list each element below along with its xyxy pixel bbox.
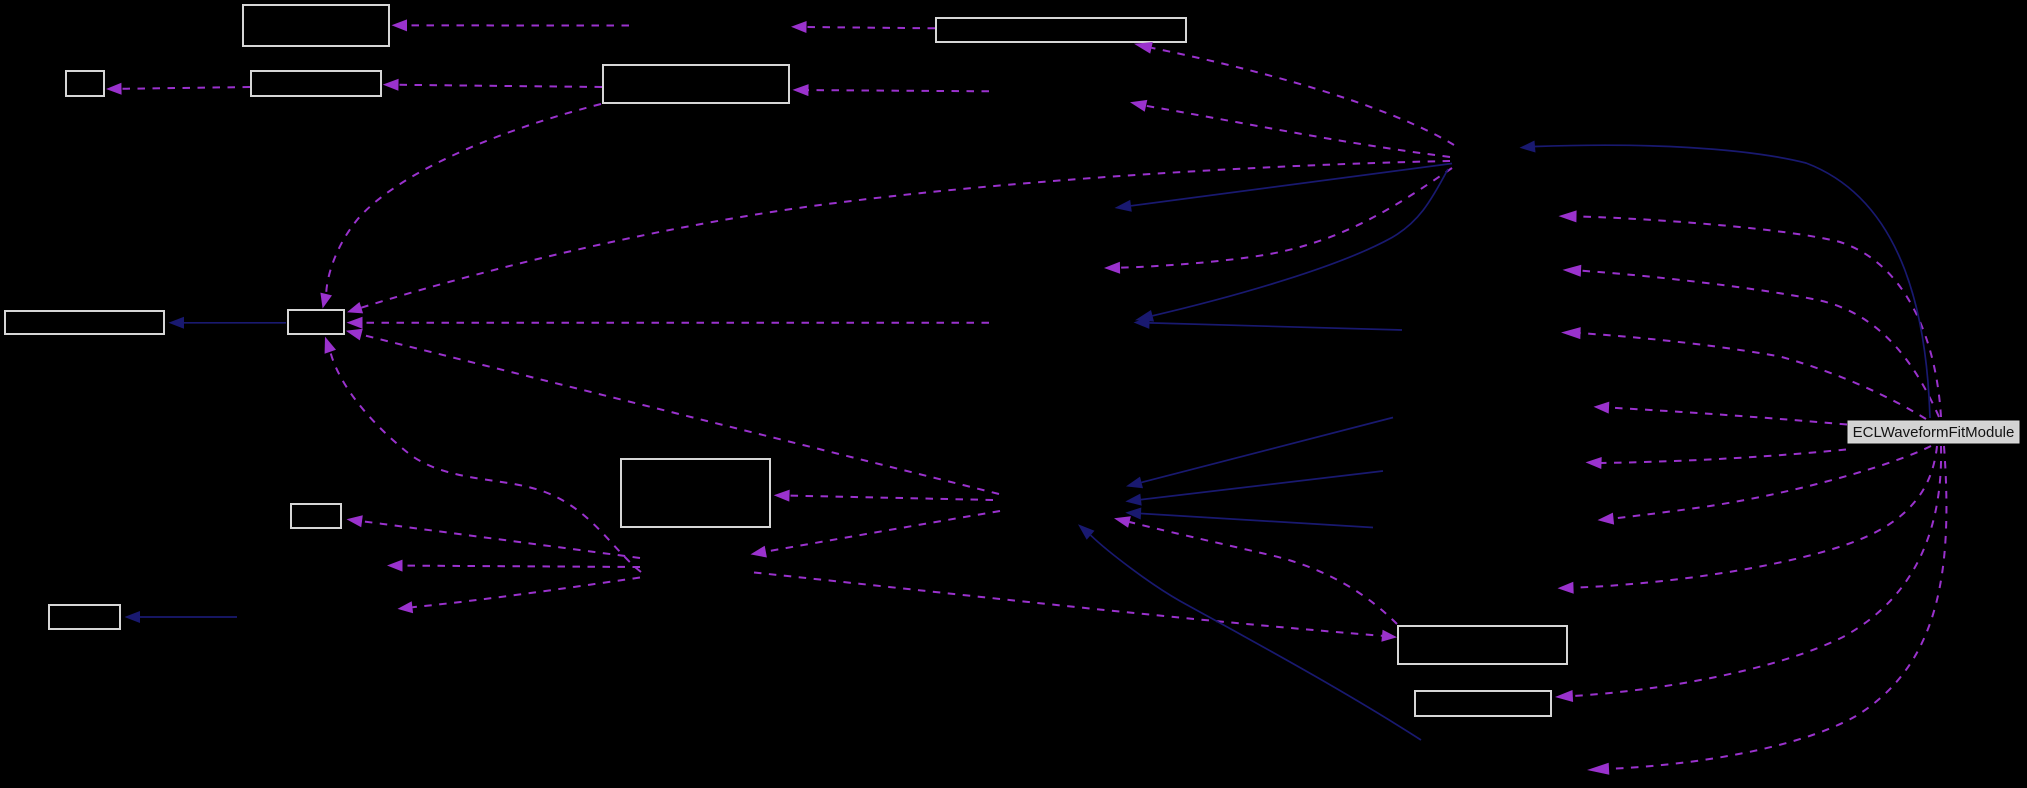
node B7 xyxy=(5,311,164,334)
svg-text:ECLWaveformFitModule: ECLWaveformFitModule xyxy=(1853,424,2015,441)
edge INV13 to INV7 blue xyxy=(1134,317,1403,330)
edge HUB2 to node566 xyxy=(387,560,640,572)
edge B12 to INV3 xyxy=(1114,516,1397,624)
edge INV3 to B8 xyxy=(346,329,999,494)
node B2 xyxy=(66,71,104,96)
edge ECL to B13 xyxy=(1555,446,1941,702)
edge INV5 to INV3 blue xyxy=(1125,471,1383,506)
node B1 xyxy=(243,5,389,46)
edge INV7 to B8 xyxy=(347,317,990,329)
edge ECL arc2 xyxy=(1563,265,1940,417)
edge B5 to INV1 xyxy=(791,21,935,33)
edge INV8 to B11 blue xyxy=(125,611,238,623)
edge INV11 to B4 xyxy=(793,84,990,96)
node B9 xyxy=(621,459,770,527)
edge ECL arc4 xyxy=(1594,402,1848,425)
edge INV3 to HUB2 xyxy=(751,511,1001,558)
edge HUB2 to B10 xyxy=(347,515,641,558)
edge HUB to INV11 xyxy=(1130,100,1450,157)
node B8 xyxy=(288,310,344,334)
edge B3 to B2 xyxy=(106,83,250,95)
edge ECL arc3 xyxy=(1561,327,1926,419)
edge ECL arc7 xyxy=(1558,446,1938,594)
edge INV9 to INV3 blue xyxy=(1125,508,1373,528)
edge ECL to HUB blue arc xyxy=(1520,141,1931,419)
edge ECL arc6 xyxy=(1598,446,1932,525)
edge B4 to B3 xyxy=(383,79,602,91)
edge HUB2 to node609 xyxy=(398,578,641,614)
edge ECL arc1 xyxy=(1559,210,1942,417)
edge INV3 to B9 xyxy=(774,490,993,502)
edge B4 to B8 xyxy=(320,104,601,309)
edge INV10 to INV3 blue xyxy=(1078,524,1421,740)
edge HUB to INV6 xyxy=(1104,168,1452,274)
node B10 xyxy=(291,504,341,528)
node B12 xyxy=(1398,626,1567,664)
edge HUB to B5 xyxy=(1134,42,1454,145)
edge B8 to B7 blue xyxy=(169,317,287,329)
node ECLWaveformFitModule xyxy=(1848,421,2019,443)
node B11 xyxy=(49,605,120,629)
node B13 xyxy=(1415,691,1551,716)
edge HUB2 to B12 xyxy=(754,573,1397,642)
edge ECL arc9 xyxy=(1587,446,1946,775)
edge INV4 to INV3 blue xyxy=(1126,418,1393,489)
node B4 xyxy=(603,65,789,103)
node B5 xyxy=(936,18,1186,42)
node B3 xyxy=(251,71,381,96)
edge HUB to INV7 blue xyxy=(1135,169,1448,322)
edge HUB2 to B8 xyxy=(325,337,641,572)
edge ECL arc5 xyxy=(1586,450,1847,470)
edge HUB to INV12 blue xyxy=(1115,164,1453,212)
edge INV1 to B1 xyxy=(392,19,630,31)
edge HUB to B8 xyxy=(347,161,1450,313)
